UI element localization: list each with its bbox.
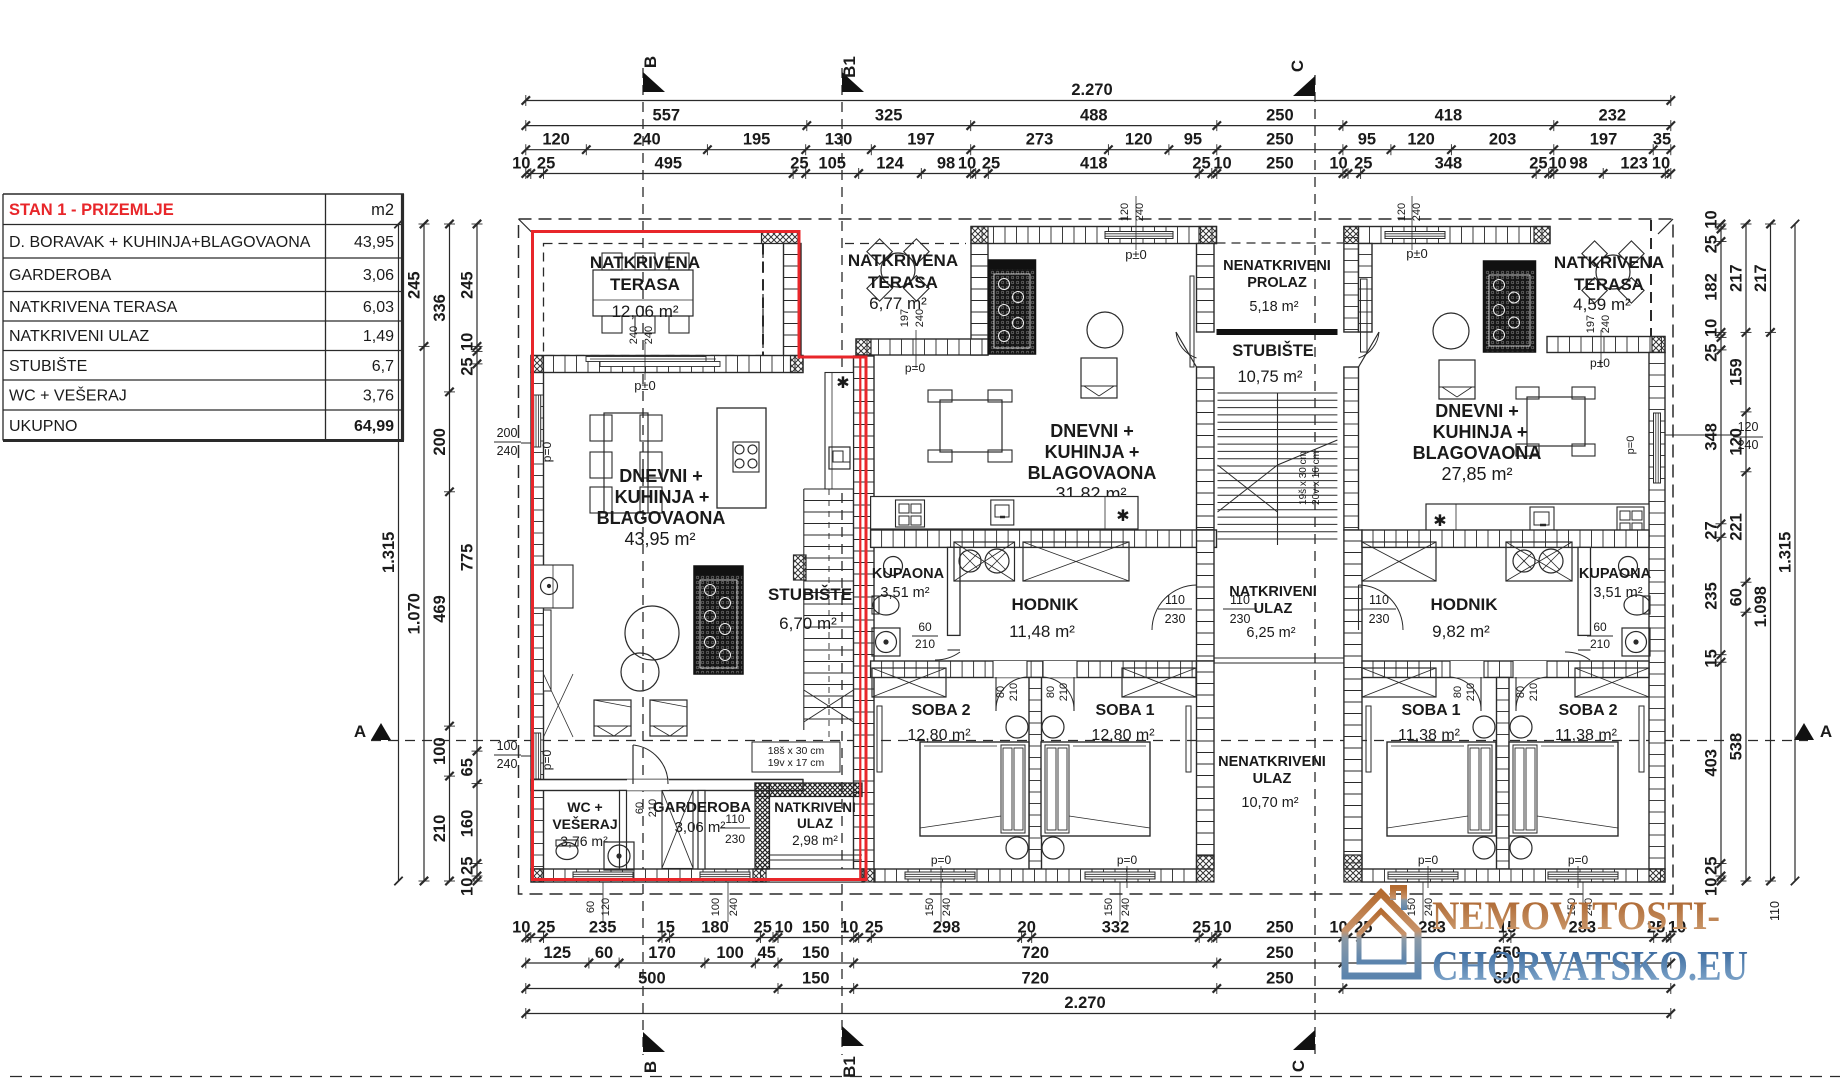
svg-text:STAN 1 - PRIZEMLJE: STAN 1 - PRIZEMLJE	[9, 201, 174, 219]
svg-text:C: C	[1288, 60, 1307, 72]
unit1 left wall shelf	[544, 610, 552, 691]
unit1 dining table	[604, 413, 648, 513]
unit2 counter sink module	[896, 500, 925, 527]
section marker B bottom	[643, 1032, 665, 1052]
svg-text:120: 120	[542, 131, 570, 149]
unit2 terasa bottom wall	[856, 339, 988, 355]
svg-text:VEŠERAJ: VEŠERAJ	[552, 815, 617, 832]
svg-text:240: 240	[633, 131, 661, 149]
svg-text:200: 200	[497, 426, 518, 440]
svg-text:25: 25	[1703, 344, 1721, 362]
svg-text:150: 150	[802, 919, 830, 937]
svg-text:232: 232	[1599, 107, 1627, 125]
unit3 kupaona fixtures sink	[1619, 557, 1638, 576]
section line C vertical	[1314, 75, 1316, 1055]
svg-text:100: 100	[497, 739, 518, 753]
unit2 soba2 window 150/240	[905, 872, 975, 879]
svg-text:100: 100	[431, 737, 449, 765]
svg-text:418: 418	[1435, 107, 1463, 125]
svg-text:150: 150	[924, 898, 936, 916]
svg-text:100: 100	[710, 898, 722, 916]
svg-text:27,85 m²: 27,85 m²	[1441, 464, 1512, 484]
watermark house logo	[1345, 888, 1418, 976]
unit2 partition soba1/soba2	[1029, 678, 1042, 870]
svg-text:✱: ✱	[1433, 513, 1446, 530]
unit1 staircase STUBISTE treads	[803, 489, 805, 730]
unit1 terasa right open boundary dashed	[762, 244, 764, 356]
unit2 soba2 door arc	[995, 677, 997, 711]
svg-text:60: 60	[585, 901, 597, 913]
unit3 kupaona door arc	[1565, 652, 1590, 660]
left dimension line 336/200/469/100/210	[449, 224, 451, 881]
unit3 right wall window 120/240	[1654, 413, 1661, 483]
unit2 entry door from prolaz	[1176, 332, 1197, 367]
central bottom left pillar	[1197, 855, 1215, 882]
unit1 tall cabinet dark	[694, 566, 743, 674]
svg-text:PROLAZ: PROLAZ	[1247, 275, 1307, 291]
right dimension line 217/1.098	[1770, 224, 1772, 881]
svg-text:150: 150	[802, 970, 830, 988]
svg-text:45: 45	[758, 944, 776, 962]
unit2 kupaona toilet	[873, 595, 899, 615]
central left wall lower	[1197, 530, 1215, 661]
unit1 kitchen corner counter	[531, 565, 573, 608]
svg-text:10,70 m²: 10,70 m²	[1241, 795, 1298, 811]
svg-text:STUBIŠTE: STUBIŠTE	[9, 356, 87, 375]
svg-text:720: 720	[1022, 970, 1050, 988]
svg-text:230: 230	[725, 832, 745, 846]
svg-text:NENATKRIVENI: NENATKRIVENI	[1218, 754, 1326, 770]
svg-text:80: 80	[1045, 686, 1057, 698]
unit2 kupaona right wall	[948, 547, 961, 635]
svg-text:210: 210	[1008, 683, 1020, 701]
svg-text:25: 25	[1192, 919, 1210, 937]
svg-text:180: 180	[701, 919, 729, 937]
unit1 entrance step lines	[770, 854, 862, 856]
svg-text:60: 60	[1593, 620, 1607, 634]
svg-text:197: 197	[907, 131, 935, 149]
unit1 left wall window 200/240	[534, 395, 541, 447]
svg-text:150: 150	[802, 944, 830, 962]
unit3 hodnik wardrobe	[1362, 542, 1436, 581]
svg-text:495: 495	[655, 155, 683, 173]
unit3 soba2 bed	[1509, 742, 1618, 836]
central staircase treads	[1218, 392, 1338, 394]
svg-text:KUHINJA +: KUHINJA +	[615, 487, 710, 507]
unit3 soba2 window 150/240	[1548, 872, 1618, 879]
unit3 soba2 nightstands	[1510, 716, 1532, 738]
svg-text:170: 170	[648, 944, 676, 962]
unit3 soba2 wardrobe	[1575, 668, 1649, 697]
svg-text:19v x 17 cm: 19v x 17 cm	[768, 757, 825, 769]
unit1 terasa dashed outline	[544, 244, 764, 356]
unit1 natkriveni ulaz dark wall top	[755, 783, 862, 797]
unit2 left wall at terasa	[971, 244, 988, 356]
unit3 soba1 wardrobe	[1362, 668, 1436, 697]
svg-text:3,51 m²: 3,51 m²	[880, 585, 929, 601]
unit1 stair pillar crosshatch	[794, 555, 807, 580]
svg-text:80: 80	[1515, 686, 1527, 698]
bottom dimension line row3 500/150/720/250/650	[526, 988, 1671, 990]
svg-text:10: 10	[1548, 155, 1566, 173]
svg-text:B: B	[641, 1061, 660, 1073]
svg-text:D. BORAVAK + KUHINJA+BLAGOVAON: D. BORAVAK + KUHINJA+BLAGOVAONA	[9, 234, 311, 251]
unit2 soba1 window 150/240	[1085, 872, 1155, 879]
svg-text:240: 240	[1134, 203, 1146, 221]
unit2 terasa dashed top boundary	[845, 243, 966, 245]
svg-text:25: 25	[982, 155, 1000, 173]
svg-text:203: 203	[1489, 131, 1517, 149]
svg-text:NATKRIVENA TERASA: NATKRIVENA TERASA	[9, 299, 178, 316]
unit3 right wall window spec 120/240	[1665, 434, 1733, 436]
central wall prolaz/stubiste solid	[1217, 329, 1338, 335]
svg-text:15: 15	[657, 919, 675, 937]
svg-text:10: 10	[1213, 919, 1231, 937]
svg-text:p±0: p±0	[634, 378, 656, 393]
svg-text:12,06 m²: 12,06 m²	[611, 302, 678, 321]
unit3 bottom exterior wall	[1362, 869, 1665, 882]
svg-text:250: 250	[1266, 131, 1294, 149]
unit3 kitchen tall cabinet dark	[1484, 261, 1536, 352]
svg-text:210: 210	[915, 637, 935, 651]
unit3 soba1 door opening	[1450, 661, 1484, 678]
svg-text:p=0: p=0	[540, 749, 554, 770]
central bottom right pillar	[1344, 855, 1362, 882]
svg-text:p=0: p=0	[1625, 436, 1637, 455]
svg-text:25: 25	[1703, 235, 1721, 253]
unit2 counter dishwasher	[991, 500, 1014, 525]
unit1 staircase note box 18s x 30cm	[752, 742, 840, 772]
unit3 dining table 4 chairs	[1527, 397, 1585, 446]
svg-text:HODNIK: HODNIK	[1011, 595, 1079, 614]
unit2 soba1 wardrobe	[1122, 668, 1196, 697]
svg-text:403: 403	[1703, 749, 1721, 777]
svg-text:60: 60	[634, 802, 646, 814]
svg-text:100: 100	[716, 944, 744, 962]
svg-text:210: 210	[1528, 683, 1540, 701]
unit2 dining table 4 chairs	[940, 400, 1002, 452]
svg-text:120: 120	[1738, 420, 1759, 434]
svg-text:123: 123	[1620, 155, 1648, 173]
unit2 soba1 door arc	[1073, 677, 1075, 711]
svg-text:CHORVATSKO.EU: CHORVATSKO.EU	[1432, 944, 1748, 990]
unit1 entrance door opening	[770, 869, 862, 882]
svg-text:120: 120	[1125, 131, 1153, 149]
svg-text:10: 10	[459, 878, 477, 896]
svg-text:240: 240	[1600, 315, 1612, 333]
unit2 top wall window 120/240	[1105, 232, 1173, 239]
unit2 door arc from natkriveni ulaz	[1152, 585, 1197, 630]
unit3 terasa round table with chairs	[1596, 255, 1630, 289]
svg-text:12,80 m²: 12,80 m²	[1091, 727, 1155, 744]
unit3 pendant circle	[1433, 313, 1469, 349]
svg-text:80: 80	[995, 686, 1007, 698]
roof corner diagonal top-left	[519, 219, 534, 234]
svg-text:95: 95	[1184, 131, 1202, 149]
unit1 kitchen sink	[829, 447, 850, 469]
section line B1 vertical	[841, 68, 843, 1055]
svg-text:ULAZ: ULAZ	[1254, 601, 1293, 617]
svg-text:10: 10	[840, 919, 858, 937]
stan1 red boundary inner line right wall	[859, 357, 861, 880]
svg-text:25: 25	[754, 919, 772, 937]
svg-text:10: 10	[958, 155, 976, 173]
unit2 right wall upper part	[1197, 244, 1215, 333]
unit3 soba2 door opening	[1513, 661, 1547, 678]
unit2 bottom exterior wall	[874, 869, 1197, 882]
unit2 hodnik wardrobe	[1023, 542, 1129, 581]
svg-text:20v x 16 cm: 20v x 16 cm	[1311, 451, 1322, 505]
svg-text:43,95: 43,95	[354, 234, 394, 251]
svg-text:150: 150	[1103, 898, 1115, 916]
svg-text:125: 125	[544, 944, 572, 962]
svg-text:210: 210	[647, 799, 659, 817]
svg-text:STUBIŠTE: STUBIŠTE	[768, 585, 852, 604]
svg-text:60: 60	[1728, 588, 1746, 606]
svg-text:25: 25	[459, 357, 477, 375]
unit1 kitchen counter right side	[825, 373, 854, 490]
svg-text:DNEVNI +: DNEVNI +	[1050, 421, 1134, 441]
svg-text:159: 159	[1728, 358, 1746, 386]
svg-text:BLAGOVAONA: BLAGOVAONA	[1413, 443, 1542, 463]
unit1 terasa table inner lines	[593, 299, 693, 301]
svg-text:110: 110	[1230, 593, 1250, 607]
roof corner diagonal top-right	[1658, 219, 1673, 234]
svg-text:25: 25	[865, 919, 883, 937]
svg-text:10: 10	[775, 919, 793, 937]
svg-text:240: 240	[1738, 438, 1759, 452]
central right wall lower	[1344, 530, 1362, 869]
stan1 red boundary outline	[533, 232, 867, 880]
svg-text:STUBIŠTE: STUBIŠTE	[1232, 341, 1314, 360]
unit1 left exterior wall	[531, 373, 544, 870]
unit1 bottom exterior wall	[531, 869, 864, 882]
svg-text:15: 15	[1703, 649, 1721, 667]
unit1 partition vertical WC/garderoba	[620, 791, 627, 870]
unit1 garderoba wardrobe	[662, 791, 693, 869]
unit2 hodnik utility closet with appliances	[954, 542, 1015, 581]
svg-text:2.270: 2.270	[1071, 81, 1112, 99]
unit3 kupaona left wall	[1578, 547, 1591, 635]
svg-text:197: 197	[899, 309, 911, 327]
svg-text:3,06 m²: 3,06 m²	[675, 819, 726, 836]
svg-text:SOBA 2: SOBA 2	[912, 702, 971, 719]
unit2 pendant circle	[1087, 312, 1123, 348]
svg-text:3,76 m²: 3,76 m²	[560, 833, 608, 849]
unit3 soba1 window 150/240	[1388, 872, 1458, 879]
svg-text:25: 25	[1354, 155, 1372, 173]
unit2 wall hodnik/sobas	[871, 661, 1197, 678]
unit1 terasa right wall pillar crosshatch	[762, 232, 799, 244]
section marker B1 top	[842, 72, 864, 92]
unit2 kitchen counter bottom	[871, 497, 1138, 530]
unit2 soba2 door opening	[993, 661, 1027, 678]
unit1 armchair 1	[594, 700, 631, 736]
svg-text:230: 230	[1230, 612, 1251, 626]
unit1 island cooktop	[733, 442, 759, 472]
svg-text:557: 557	[653, 107, 681, 125]
svg-text:p±0: p±0	[1406, 246, 1428, 261]
unit1 wall between terasa and living room	[531, 356, 803, 373]
top dimension line row4	[526, 173, 1671, 175]
svg-text:A: A	[354, 722, 366, 741]
svg-text:10: 10	[1703, 319, 1721, 337]
svg-text:150: 150	[1406, 898, 1418, 916]
svg-text:120: 120	[1396, 203, 1408, 221]
unit3 armchair	[1439, 360, 1475, 399]
svg-text:10: 10	[459, 333, 477, 351]
unit2 kupaona door arc	[935, 652, 960, 660]
svg-text:221: 221	[1728, 513, 1746, 541]
svg-text:p=0: p=0	[931, 853, 952, 867]
svg-text:240: 240	[1120, 898, 1132, 916]
unit1 WC toilet	[556, 843, 578, 860]
svg-text:120: 120	[1119, 203, 1131, 221]
svg-text:3,76: 3,76	[363, 388, 394, 405]
svg-text:160: 160	[459, 810, 477, 838]
svg-text:235: 235	[1703, 582, 1721, 610]
section marker B1 bottom	[842, 1026, 864, 1046]
svg-text:60: 60	[918, 620, 932, 634]
unit2 soba2 nightstands	[1006, 716, 1028, 738]
svg-text:98: 98	[1569, 155, 1587, 173]
svg-text:27: 27	[1703, 521, 1721, 539]
unit3 soba1 radiator left wall	[1366, 706, 1371, 772]
svg-text:3,06: 3,06	[363, 267, 394, 284]
svg-text:197: 197	[1585, 315, 1597, 333]
svg-text:210: 210	[1465, 683, 1477, 701]
unit1 armchair 2	[650, 700, 687, 736]
svg-text:✱: ✱	[1116, 508, 1129, 525]
central threshold step	[1214, 657, 1344, 659]
svg-text:10,75 m²: 10,75 m²	[1237, 368, 1303, 386]
svg-text:240: 240	[643, 326, 655, 344]
svg-text:250: 250	[1266, 944, 1294, 962]
unit1 staircase center dashed walking line	[828, 489, 830, 760]
svg-text:538: 538	[1728, 733, 1746, 761]
svg-text:197: 197	[1590, 131, 1618, 149]
svg-text:2.270: 2.270	[1064, 994, 1105, 1012]
svg-text:720: 720	[1022, 944, 1050, 962]
top dimension line row3	[526, 149, 1671, 151]
svg-text:110: 110	[1768, 901, 1782, 921]
unit1 left wall window 100/240	[534, 733, 541, 779]
unit3 right exterior wall	[1649, 353, 1665, 870]
svg-text:124: 124	[876, 155, 904, 173]
unit3 soba2 radiator right wall	[1639, 706, 1644, 772]
central right wall mid	[1344, 367, 1359, 530]
svg-text:NATKRIVENA: NATKRIVENA	[848, 251, 958, 270]
svg-text:p=0: p=0	[1117, 853, 1138, 867]
svg-text:SOBA 2: SOBA 2	[1559, 702, 1618, 719]
svg-text:KUPAONA: KUPAONA	[872, 566, 945, 582]
unit3 partition soba1/soba2	[1497, 678, 1510, 870]
svg-text:195: 195	[743, 131, 771, 149]
svg-text:WC + VEŠERAJ: WC + VEŠERAJ	[9, 386, 127, 405]
svg-text:11,48 m²: 11,48 m²	[1009, 622, 1075, 641]
svg-text:240: 240	[914, 309, 926, 327]
svg-text:1,49: 1,49	[363, 328, 394, 345]
area table STAN 1 - PRIZEMLJE	[3, 193, 404, 195]
svg-text:348: 348	[1435, 155, 1463, 173]
svg-text:500: 500	[638, 970, 666, 988]
unit2 kitchen tall cabinet dark	[989, 260, 1036, 354]
svg-text:25: 25	[790, 155, 808, 173]
unit2 right wall lower part	[1197, 367, 1215, 530]
svg-text:1.315: 1.315	[1777, 532, 1795, 573]
roof outline dashed	[519, 219, 1674, 894]
unit2 soba1 door opening	[1043, 661, 1077, 678]
section marker A left	[371, 723, 391, 740]
svg-text:65: 65	[459, 758, 477, 776]
svg-text:240: 240	[941, 898, 953, 916]
svg-text:250: 250	[1266, 107, 1294, 125]
svg-text:p=0: p=0	[1568, 853, 1589, 867]
svg-text:NATKRIVENI: NATKRIVENI	[774, 800, 856, 815]
svg-text:2,98 m²: 2,98 m²	[792, 833, 838, 848]
svg-text:230: 230	[1165, 612, 1186, 626]
svg-text:18š x 30 cm: 18š x 30 cm	[768, 745, 825, 757]
svg-text:217: 217	[1752, 264, 1770, 292]
svg-text:25: 25	[459, 857, 477, 875]
svg-text:25: 25	[1192, 155, 1210, 173]
unit1 top wall corner crosshatch right	[791, 356, 804, 373]
unit1 sliding glass door in top wall	[586, 357, 706, 362]
svg-text:TERASA: TERASA	[868, 273, 938, 292]
unit2 soba1 nightstands	[1042, 716, 1064, 738]
unit2 soba1 radiator right wall	[1186, 706, 1191, 772]
unit2 top exterior wall	[971, 227, 1217, 244]
svg-text:10: 10	[1703, 210, 1721, 228]
svg-text:230: 230	[1369, 612, 1390, 626]
svg-text:10: 10	[1329, 155, 1347, 173]
svg-text:273: 273	[1026, 131, 1054, 149]
top dimension line total 2.270	[526, 100, 1671, 102]
top dimension line row2 557/325/488/250/418/232	[526, 125, 1671, 127]
svg-text:m2: m2	[371, 201, 394, 219]
svg-text:3,51 m²: 3,51 m²	[1593, 585, 1642, 601]
svg-text:TERASA: TERASA	[1574, 275, 1644, 294]
svg-text:10: 10	[1652, 155, 1670, 173]
svg-text:4,59 m²: 4,59 m²	[1573, 295, 1631, 314]
bottom dimension line total 2.270	[526, 1013, 1671, 1015]
unit1 top wall corner crosshatch left	[531, 356, 544, 373]
central left wall bottom part	[1197, 661, 1215, 869]
svg-text:210: 210	[1058, 683, 1070, 701]
svg-text:250: 250	[1266, 919, 1294, 937]
unit1 partition door opening to WC	[627, 780, 669, 791]
svg-text:WC +: WC +	[567, 799, 602, 815]
svg-text:BLAGOVAONA: BLAGOVAONA	[1028, 463, 1157, 483]
svg-text:p=0: p=0	[905, 361, 926, 375]
svg-text:35: 35	[1653, 131, 1671, 149]
left dimension line 245/1.070	[423, 224, 425, 881]
unit2 kupaona fixtures sink	[884, 557, 903, 576]
section marker C bottom	[1293, 1030, 1315, 1050]
svg-text:182: 182	[1703, 273, 1721, 301]
svg-text:1.070: 1.070	[406, 593, 424, 634]
svg-text:298: 298	[933, 919, 961, 937]
unit2 right wall glass	[1190, 276, 1194, 367]
svg-text:KUHINJA +: KUHINJA +	[1433, 422, 1528, 442]
svg-text:469: 469	[431, 595, 449, 623]
svg-text:NATKRIVENA: NATKRIVENA	[590, 253, 700, 272]
svg-text:120: 120	[600, 898, 612, 916]
central prolaz top dashed boundary	[1217, 242, 1344, 244]
unit1 partition wall living/wc-garderoba	[531, 780, 803, 791]
svg-text:488: 488	[1080, 107, 1108, 125]
unit3 counter sink module	[1617, 507, 1644, 533]
